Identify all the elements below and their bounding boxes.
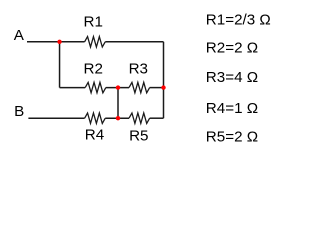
svg-text:R2=2 Ω: R2=2 Ω [206, 40, 258, 57]
wire A to junction and R1 [27, 41, 85, 43]
wire R2 to mid junction [106, 87, 129, 89]
junction dot right node R3 [161, 85, 165, 89]
resistor R4 [85, 113, 106, 123]
wire R4 to B junction [105, 117, 129, 119]
resistor R5 [129, 113, 150, 123]
svg-text:A: A [14, 27, 25, 44]
wire left vertical from A junction [59, 42, 61, 88]
resistor R1 [85, 37, 106, 47]
junction dot mid node R2-R3 [116, 85, 120, 89]
svg-text:R3=4 Ω: R3=4 Ω [206, 69, 258, 86]
svg-text:R5=2 Ω: R5=2 Ω [206, 129, 258, 146]
wire mid row left [60, 87, 86, 89]
resistor R3 [129, 82, 150, 92]
svg-text:R5: R5 [129, 128, 148, 145]
svg-text:R4=1 Ω: R4=1 Ω [206, 100, 258, 117]
wire mid vertical [117, 88, 119, 119]
svg-text:R4: R4 [85, 126, 104, 143]
junction dot node A-R2 [57, 40, 61, 44]
svg-text:R1: R1 [84, 14, 103, 31]
svg-text:R1=2/3 Ω: R1=2/3 Ω [206, 12, 271, 29]
svg-text:B: B [14, 103, 24, 120]
wire R3 to right vertical [150, 87, 164, 89]
svg-text:R3: R3 [129, 61, 148, 78]
junction dot node R4-R5 [116, 116, 120, 120]
wire R5 to right vertical [150, 117, 164, 119]
wire right vertical [163, 42, 165, 118]
resistor R2 [85, 82, 106, 92]
wire R1 to right corner [105, 41, 163, 43]
svg-text:R2: R2 [84, 61, 103, 78]
wire B to R4 [28, 117, 84, 119]
